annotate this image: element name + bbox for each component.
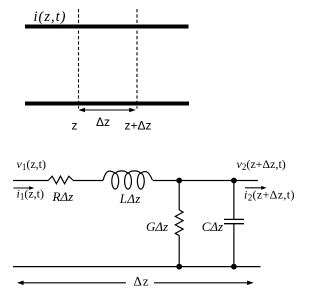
- svg-text:i2(z+Δz,t): i2(z+Δz,t): [244, 188, 295, 203]
- current arrow i2: [245, 186, 267, 190]
- node G-bottom junction dot: [176, 264, 182, 270]
- node G-top junction dot: [176, 178, 182, 184]
- svg-text:v1(z,t): v1(z,t): [17, 157, 46, 172]
- svg-text:z+Δz: z+Δz: [125, 119, 152, 133]
- top conductor: [25, 25, 189, 29]
- svg-text:GΔz: GΔz: [146, 219, 168, 234]
- wire resistor to inductor: [73, 180, 103, 182]
- bottom conductor: [25, 102, 189, 106]
- bottom wire: [13, 266, 261, 268]
- wire C branch bottom: [233, 224, 235, 267]
- wire inductor to node A: [153, 180, 258, 182]
- inductor LΔz: [103, 171, 153, 189]
- current arrow i1: [13, 186, 34, 190]
- svg-text:i(z,t): i(z,t): [34, 9, 67, 25]
- svg-text:LΔz: LΔz: [119, 192, 141, 206]
- wire G branch top: [178, 181, 180, 211]
- dimension arrow dz (top figure): [78, 108, 135, 113]
- node C-bottom junction dot: [231, 264, 237, 270]
- svg-text:CΔz: CΔz: [202, 219, 223, 234]
- dashed line z: [78, 9, 80, 109]
- svg-text:z: z: [72, 119, 78, 133]
- svg-text:Δz: Δz: [96, 115, 110, 129]
- svg-text:Δz: Δz: [134, 273, 150, 288]
- wire C branch top: [233, 181, 235, 220]
- wire G branch bottom: [178, 236, 180, 267]
- node C-top junction dot: [231, 178, 237, 184]
- resistor RΔz: [49, 176, 73, 184]
- svg-text:RΔz: RΔz: [52, 189, 74, 204]
- wire left to resistor: [13, 180, 49, 182]
- dimension arrow Δz (bottom): [17, 281, 254, 286]
- capacitor CΔz plates: [224, 218, 244, 220]
- dashed line z+dz: [136, 9, 138, 109]
- resistor GΔz (vertical zigzag): [175, 210, 183, 236]
